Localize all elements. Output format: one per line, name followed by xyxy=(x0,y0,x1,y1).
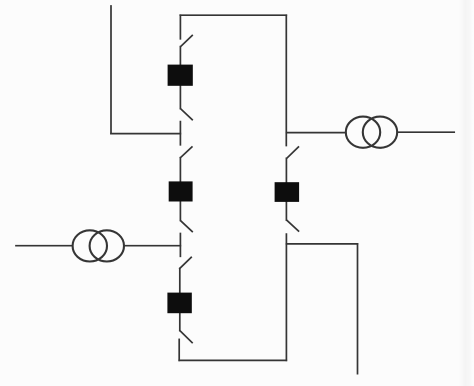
disconnector S1 blade xyxy=(181,36,193,47)
disconnector S6 blade xyxy=(180,331,192,343)
wire right lower feeder vertical xyxy=(357,244,359,374)
wire top bus xyxy=(180,14,286,16)
wire upper-left feeder vertical xyxy=(110,6,112,134)
disconnector S3 blade xyxy=(180,147,192,158)
disconnector S4 blade xyxy=(181,221,193,232)
wire transformer T1 to node B xyxy=(124,245,180,247)
wire S5 to Q3 xyxy=(179,268,181,292)
wire S4 through node B to S5 xyxy=(179,234,181,257)
wire left axis: top bus to S1 xyxy=(179,15,181,39)
disconnector S8 blade xyxy=(287,220,299,231)
disconnector S5 blade xyxy=(180,257,191,268)
transformer T2 primary winding xyxy=(346,117,380,148)
wire right axis: top bus to S7 xyxy=(285,15,287,145)
disconnector S7 blade xyxy=(287,147,299,158)
wire Q1 to S2 xyxy=(179,86,181,109)
transformer T1 primary winding xyxy=(73,230,107,261)
wire S6 to bottom bus xyxy=(178,339,180,360)
wire S1 to Q1 xyxy=(179,47,181,65)
circuit breaker Q3 xyxy=(167,293,191,314)
wire Q3 to S6 xyxy=(179,313,181,331)
wire Q4 to S8 xyxy=(285,202,287,220)
wire bottom bus xyxy=(179,359,286,361)
circuit breaker Q4 xyxy=(275,182,300,202)
circuit breaker Q1 xyxy=(168,65,193,86)
wire node C horizontal to transformer T2 xyxy=(286,132,346,134)
wire S8 through node D to bottom bus xyxy=(285,234,287,360)
wire S7 to Q4 xyxy=(285,158,287,182)
wire upper-left feeder horizontal to node A xyxy=(111,133,180,135)
transformer T1 secondary winding xyxy=(90,230,124,261)
wire Q2 to S4 xyxy=(179,202,181,221)
wire S3 to Q2 xyxy=(179,158,181,182)
circuit breaker Q2 xyxy=(169,181,193,201)
disconnector S2 blade xyxy=(181,109,193,120)
transformer T2 secondary winding xyxy=(363,117,397,148)
wire S2 through node A to S3 xyxy=(179,122,181,145)
wire node D horizontal xyxy=(286,243,357,245)
wire left feeder to transformer T1 xyxy=(16,245,73,247)
wire transformer T2 to right edge xyxy=(397,131,454,133)
